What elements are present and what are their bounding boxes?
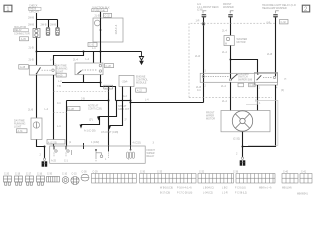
main bus wire y51 [37,51,142,53]
connector icon C-20 [4,176,12,185]
strip connector C-29 [92,174,137,184]
svg-text:A-28: A-28 [20,66,26,69]
washer small box [224,36,234,46]
svg-text:(C-32): (C-32) [233,137,240,140]
svg-text:4 (C32): 4 (C32) [133,141,141,144]
svg-text:L B-2: L B-2 [222,188,228,190]
svg-text:C-32: C-32 [281,21,287,24]
svg-text:2L-4: 2L-4 [222,100,228,103]
svg-text:C-40: C-40 [283,171,289,173]
svg-text:C-16: C-16 [37,173,43,175]
svg-text:GRID JCT: GRID JCT [118,108,130,111]
relay1 left pin down [36,75,38,118]
oval connector C-05 [81,174,89,181]
svg-text:F C-38 (L2): F C-38 (L2) [235,193,247,195]
wire isolator down [36,38,38,66]
svg-text:C-30: C-30 [140,171,146,173]
sheet marker 1 [4,5,12,12]
svg-text:2L-4: 2L-4 [73,59,79,62]
fuse F1 [46,28,50,36]
svg-text:C-28: C-28 [69,108,75,111]
round grid connector C-15 [71,176,79,184]
column switch text block [238,73,252,82]
svg-text:(C-B): (C-B) [197,9,203,12]
svg-text:CONNECTOR: CONNECTOR [14,32,30,35]
wire fuse branch [37,19,58,21]
svg-text:2L-4: 2L-4 [222,51,228,54]
dashed enclosure [189,23,275,97]
svg-text:2L-B: 2L-B [29,59,35,62]
isolator label block [14,26,30,35]
h line left y100.7 [67,100,109,102]
svg-text:AT-CONT (C28): AT-CONT (C28) [101,131,118,134]
svg-text:MOTOR: MOTOR [237,41,246,44]
svg-text:C-05: C-05 [82,171,88,173]
stub wire left [62,82,101,84]
svg-text:2L-4: 2L-4 [221,85,227,88]
svg-text:A-05: A-05 [21,38,27,41]
svg-text:2W-B: 2W-B [50,23,56,26]
J/B label block [92,6,110,12]
connector strip C-30 [47,177,60,183]
connector icon C-17 [26,176,34,185]
svg-text:MB-99341: MB-99341 [297,194,308,196]
svg-text:10A F-4: 10A F-4 [114,24,118,34]
svg-text:A-25: A-25 [51,159,57,162]
top relay label right [262,4,296,10]
svg-text:F-17 C-28 (L6): F-17 C-28 (L6) [177,193,192,195]
svg-text:MB (L04): MB (L04) [282,188,292,190]
svg-text:MOTOR: MOTOR [206,118,215,121]
svg-text:C-19: C-19 [15,173,21,175]
svg-text:C-10: C-10 [62,173,68,175]
top connector washer label [223,3,234,9]
20A right pin down to jb [130,87,132,147]
svg-text:2*: 2* [125,120,127,122]
relay1 jog to bus [54,52,84,66]
terminal arrow end of bus [139,52,143,65]
wire to J/B [100,12,102,18]
h line right y100.7 [116,100,131,102]
svg-text:L B-04 (C): L B-04 (C) [203,188,214,190]
wire labels 2W-B [28,16,56,26]
svg-text:A-2: A-2 [123,95,127,98]
relay2 gray text mid [84,105,130,133]
text right of jb box [147,142,156,159]
motor ground connector [240,157,246,166]
svg-text:C-17: C-17 [26,173,32,175]
sheet marker 2 [302,5,309,12]
svg-text:2W-B: 2W-B [41,23,47,26]
svg-text:4 (C-25): 4 (C-25) [48,141,57,144]
svg-text:C-41: C-41 [301,171,307,173]
svg-text:(F): (F) [281,89,284,92]
motor circle [232,111,252,131]
svg-text:C-33: C-33 [157,171,163,173]
svg-text:2-B: 2-B [81,98,85,101]
svg-text:L-04 (C2): L-04 (C2) [203,193,213,195]
relay2 boxed label right [105,64,114,68]
bottom connector row labels [4,171,307,175]
svg-text:C-36: C-36 [233,171,239,173]
svg-text:2L-B: 2L-B [29,47,35,50]
label block battery [29,5,39,14]
daytime running light unit breaker [31,118,42,140]
svg-text:1 (C32): 1 (C32) [91,141,99,144]
svg-text:A-22: A-22 [137,89,143,92]
wire across to right y103 [131,102,204,104]
legend text bottom [160,187,308,196]
svg-text:A-09: A-09 [57,74,63,77]
svg-text:CIRCUIT: CIRCUIT [29,11,39,14]
drop 108 to jb [108,87,110,147]
relay A-28 [29,65,56,75]
svg-text:F C-5 (L6): F C-5 (L6) [235,188,246,190]
svg-text:C-29: C-29 [93,171,99,173]
grid connector C-41 [300,174,312,184]
relay2 left pin down to jb [83,75,85,83]
right return wire [243,85,276,147]
svg-text:(WIPER SW): (WIPER SW) [238,78,252,81]
svg-text:2L-B: 2L-B [95,14,101,17]
svg-text:(2*): (2*) [89,118,93,121]
relay2 right pin jog [101,75,116,101]
arrow branch y124.5 [81,117,100,125]
svg-text:C-28: C-28 [106,65,112,68]
svg-text:C-32: C-32 [105,15,111,18]
fuse F2 [56,28,60,36]
relay2 text block [56,65,67,74]
relay2 daytime running light relay [75,63,103,75]
svg-text:C-32: C-32 [199,171,205,173]
svg-text:1-R: 1-R [196,20,200,23]
svg-text:MB-9 e (- 4): MB-9 e (- 4) [259,188,272,190]
svg-text:2L-B: 2L-B [267,53,273,56]
strip connector C-36 [236,174,275,184]
svg-text:CONT (C28): CONT (C28) [88,108,102,111]
junction block bottom [50,146,146,163]
svg-text:F-16 A-4 (L-4): F-16 A-4 (L-4) [177,187,192,190]
connector icon C-16 [37,176,45,185]
svg-text:2L-R: 2L-R [195,55,201,58]
svg-text:2W-B: 2W-B [28,16,34,19]
arrow branch y116 [99,101,117,117]
dashed links relay [54,91,109,93]
boxed label on relay1 wire [47,140,65,145]
svg-text:B-17 (C8): B-17 (C8) [160,193,170,195]
svg-text:A-10: A-10 [249,84,255,87]
svg-text:C-20: C-20 [4,173,10,175]
20A left pin to arrow [110,87,123,126]
wires wide box to motor [230,82,232,110]
breaker to ground connector [37,140,45,147]
svg-text:WASHER: WASHER [223,6,234,9]
svg-text:2W-B: 2W-B [28,23,34,26]
svg-text:C-32: C-32 [105,86,111,89]
v66 to jb [66,101,68,147]
inside symbols [54,146,134,162]
strip connector C-32b [198,174,234,184]
relay1 right pin down to j/b [53,75,55,147]
svg-text:7-B: 7-B [57,85,61,88]
svg-text:2L-4: 2L-4 [222,30,228,33]
front wiper motor box [221,111,270,132]
svg-text:RELAY: RELAY [147,155,155,158]
gray outline boxes right [246,100,278,145]
motor bottom wire [242,132,244,157]
round connector C-10 [62,177,69,184]
svg-text:2L-B: 2L-B [28,109,34,112]
svg-text:W B-16 (C6): W B-16 (C6) [160,188,173,190]
svg-text:C-15: C-15 [72,173,78,175]
svg-text:M: M [225,43,227,45]
connector icon C-19 [15,176,23,185]
bus drops to relay2 [93,52,95,64]
svg-text:LIGHT: LIGHT [14,126,22,129]
grid connector C-40 [282,174,298,184]
svg-text:MODULE: MODULE [136,82,147,85]
isolator component [33,29,40,38]
column switch wide box [200,72,277,85]
junction block box [93,18,123,42]
strip connector C-30b [140,174,197,184]
svg-text:-20A-: -20A- [122,80,129,84]
wire battery main [36,13,38,29]
svg-text:A-1 (C-28): A-1 (C-28) [84,130,96,133]
jog to 258 [231,60,258,75]
svg-text:H: H [285,78,287,81]
svg-text:L 1-R: L 1-R [222,193,228,195]
svg-text:C-30: C-30 [47,173,53,175]
fuse 20A box [119,75,134,86]
ground connector square [42,158,48,167]
top connector front wiper label [197,3,219,12]
svg-text:HEADLAMP WASHER: HEADLAMP WASHER [262,7,287,10]
svg-text:A-31: A-31 [18,130,24,133]
